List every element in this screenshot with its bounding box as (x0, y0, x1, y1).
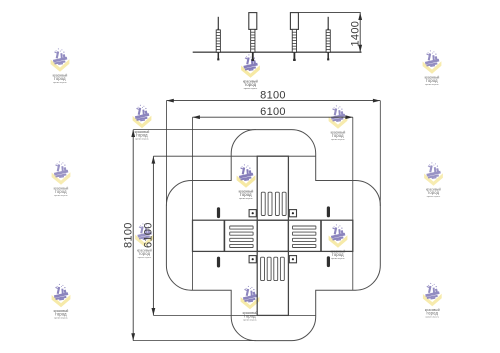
1400 extension line (298, 12, 360, 14)
svg-text:6100: 6100 (260, 106, 286, 118)
right arm slats (293, 226, 316, 248)
left arm (193, 220, 258, 251)
watermark 11 (52, 284, 71, 320)
left 8100 dimension line (132, 130, 134, 341)
watermark 1 (51, 48, 70, 84)
top arm (257, 156, 288, 220)
center platform square (257, 220, 288, 251)
svg-text:1400: 1400 (350, 21, 362, 47)
right arm (288, 220, 352, 251)
handle post A (216, 17, 220, 61)
corner post bottom-right (289, 256, 296, 263)
watermark 8 (424, 162, 443, 198)
extension line top-left vertical (165, 101, 167, 206)
svg-text:8100: 8100 (260, 89, 286, 101)
main post B (249, 13, 257, 61)
watermark 2 (241, 54, 260, 90)
watermark 13 (423, 283, 442, 319)
left arm divider (223, 220, 225, 251)
ground line (193, 51, 362, 53)
svg-text:6100: 6100 (143, 222, 155, 248)
watermark 9 (135, 223, 154, 259)
top arm slats (261, 192, 286, 215)
handle capsule right-top (327, 206, 330, 217)
watermark 10 (329, 224, 348, 260)
watermark 3 (423, 50, 442, 86)
extension line 6100 right vertical / inner right chord (352, 117, 354, 290)
svg-text:8100: 8100 (122, 222, 134, 248)
extension line 6100 left vertical (192, 117, 194, 290)
watermark 12 (241, 286, 260, 322)
extension line top-right vertical (379, 101, 381, 206)
handle capsule right-bottom (327, 256, 330, 267)
handle capsule left-bottom (217, 257, 220, 268)
bottom arm slats (261, 257, 285, 280)
extension line left 8100 top horizontal (133, 129, 256, 131)
extension line left 6100 top horizontal / inner top chord (153, 155, 315, 157)
1400 dimension line (359, 13, 361, 53)
right arm divider (320, 220, 322, 251)
left 6100 dimension line (152, 156, 154, 315)
extension line left 8100 bottom horizontal (133, 340, 256, 342)
corner post top-left (249, 210, 256, 217)
handle post D (326, 17, 330, 61)
top 8100 dimension line (166, 100, 380, 102)
watermark 7 (237, 164, 256, 200)
handle capsule left-top (217, 207, 220, 218)
watermark 6 (52, 161, 71, 197)
corner post bottom-left (249, 256, 256, 263)
left arm slats (230, 226, 253, 248)
corner post top-right (289, 210, 296, 217)
bottom arm (257, 251, 288, 315)
watermark 4 (133, 105, 152, 141)
extension line left 6100 bottom horizontal / inner bottom chord (153, 314, 315, 316)
main post C (290, 13, 298, 61)
top 6100 dimension line (193, 116, 353, 118)
watermark 5 (329, 105, 348, 141)
